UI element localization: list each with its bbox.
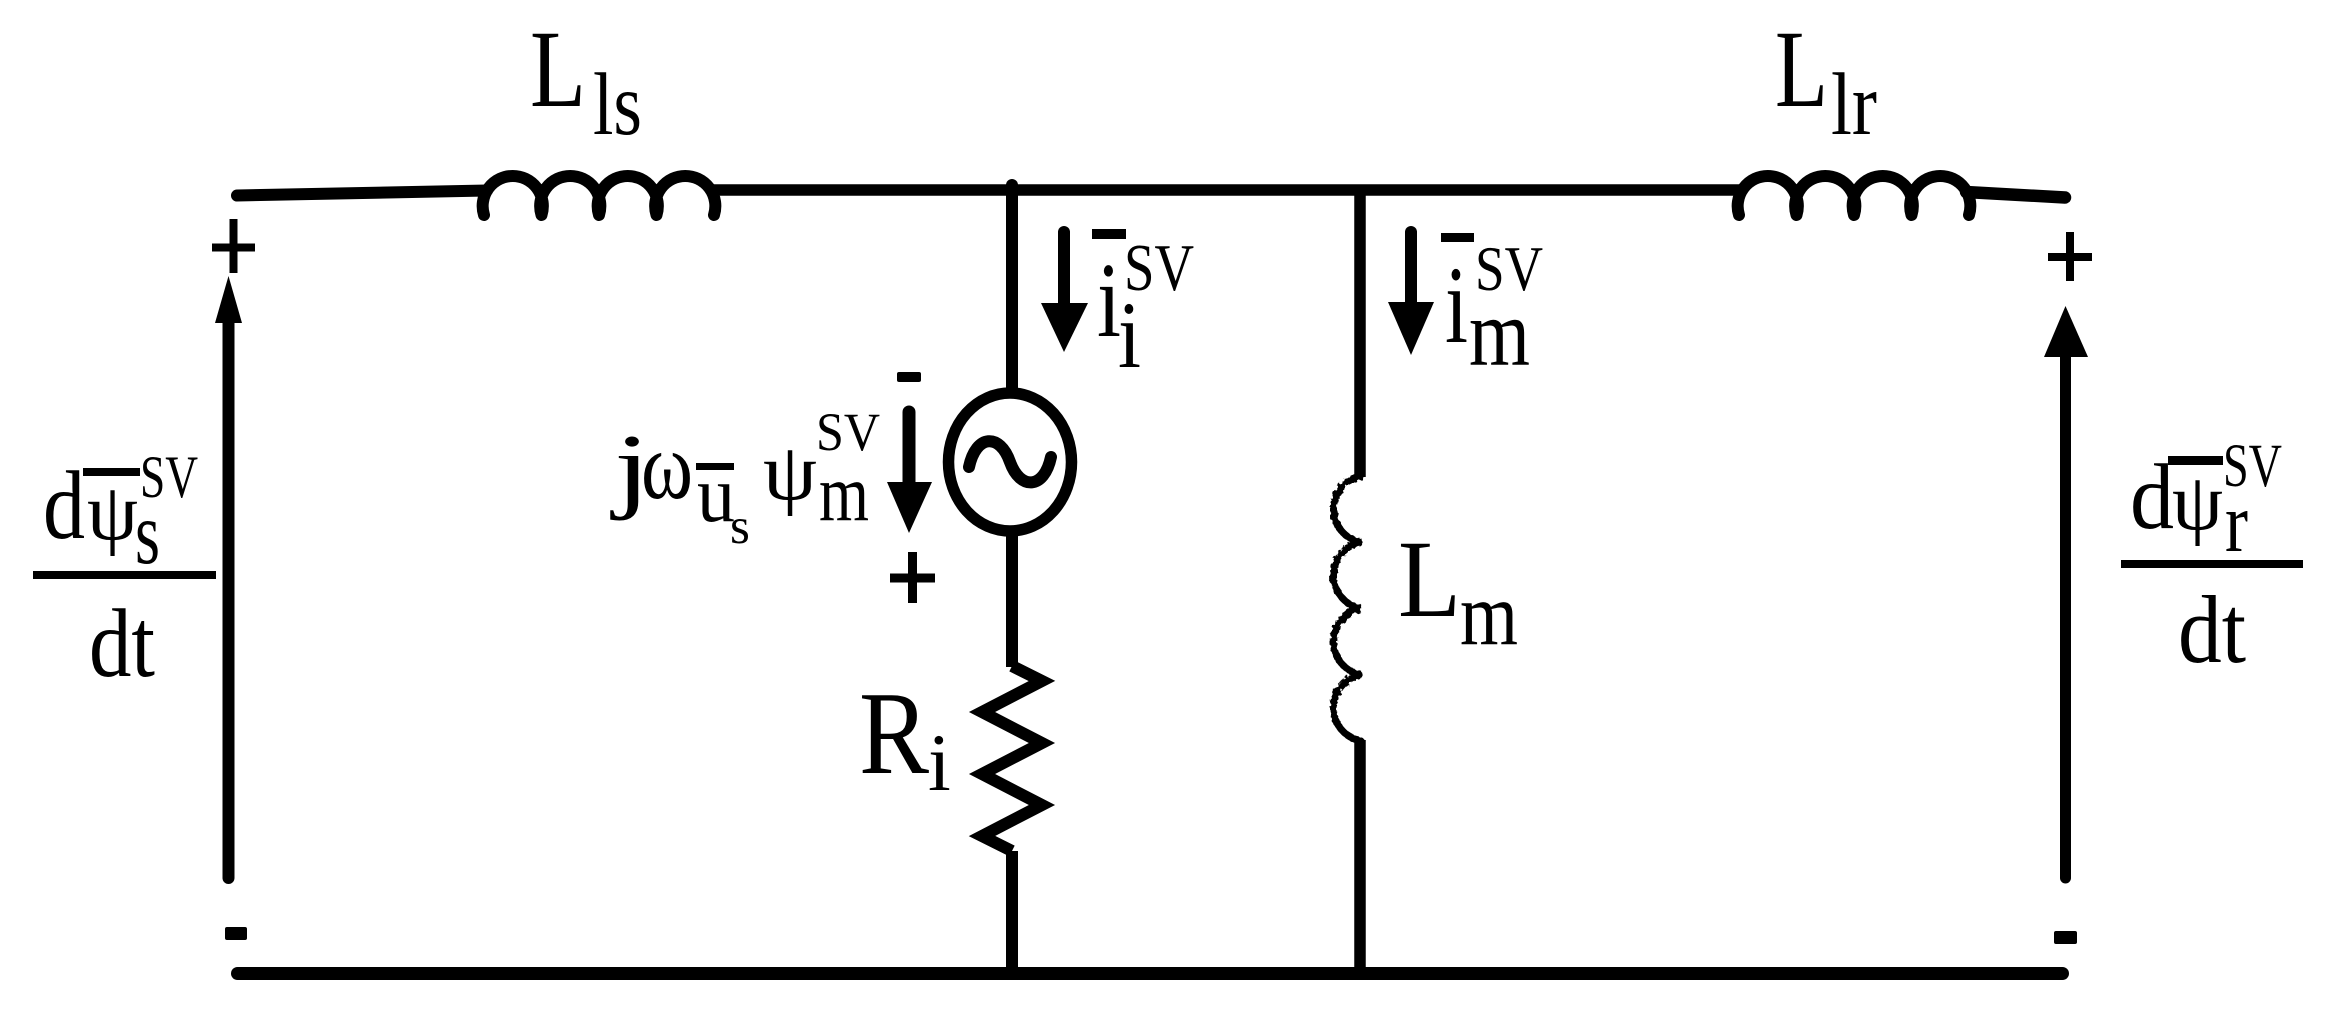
svg-text:i: i bbox=[928, 717, 951, 808]
svg-text:m: m bbox=[819, 448, 869, 538]
wire top-right segment bbox=[1966, 192, 2065, 198]
svg-text:i: i bbox=[1118, 282, 1141, 388]
svg-text:L: L bbox=[1398, 518, 1461, 640]
plus sign source bbox=[890, 552, 935, 603]
svg-text:ls: ls bbox=[593, 56, 642, 154]
source polarity arrow bbox=[887, 412, 932, 533]
inductor L_ls coil bbox=[483, 176, 716, 215]
svg-text:m: m bbox=[1469, 280, 1530, 386]
svg-text:SV: SV bbox=[140, 444, 198, 510]
inductor L_lr coil bbox=[1738, 176, 1971, 215]
svg-text:dt: dt bbox=[89, 590, 155, 697]
svg-text:lr: lr bbox=[1831, 56, 1877, 154]
label R_i bbox=[859, 667, 951, 808]
left voltage arrow (dψs/dt) bbox=[215, 276, 242, 878]
plus sign left bbox=[212, 219, 255, 273]
wire source to resistor bbox=[1006, 536, 1018, 667]
svg-text:ψ: ψ bbox=[2172, 459, 2223, 547]
current arrow i_m bbox=[1388, 232, 1434, 355]
label dψs/dt fraction bbox=[33, 444, 216, 697]
bottom wire bbox=[238, 967, 2063, 980]
svg-text:d: d bbox=[2130, 446, 2174, 549]
svg-text:L: L bbox=[530, 8, 586, 130]
label dψr/dt fraction bbox=[2121, 433, 2303, 683]
svg-text:R: R bbox=[859, 667, 930, 799]
svg-text:L: L bbox=[1775, 8, 1828, 130]
svg-text:dt: dt bbox=[2178, 576, 2246, 683]
svg-text:d: d bbox=[43, 452, 85, 559]
node B junction branch 2 bbox=[1354, 190, 1366, 477]
inductor L_m coil bbox=[1333, 476, 1361, 741]
wire top-left segment bbox=[237, 191, 487, 196]
current arrow i_i bbox=[1041, 232, 1088, 352]
svg-text:ψ: ψ bbox=[763, 429, 817, 517]
node A junction branch 1 bbox=[1006, 185, 1018, 389]
minus sign source bbox=[897, 372, 921, 382]
minus sign left bbox=[225, 927, 247, 940]
svg-text:s: s bbox=[730, 499, 750, 555]
svg-text:SV: SV bbox=[2223, 433, 2282, 500]
svg-text:ω: ω bbox=[641, 412, 693, 519]
label i_m^SV bbox=[1441, 233, 1543, 386]
inductor L_ls label bbox=[530, 8, 642, 154]
right voltage arrow (dψr/dt) bbox=[2044, 306, 2088, 878]
minus sign right bbox=[2054, 931, 2077, 944]
wire resistor to bottom bbox=[1006, 851, 1018, 974]
source label jw_us psi_m^SV bbox=[610, 402, 880, 555]
label i_i^SV bbox=[1092, 229, 1194, 388]
wire L_m to bottom bbox=[1354, 740, 1366, 974]
wire top-middle segment bbox=[710, 184, 1741, 196]
svg-text:i: i bbox=[1445, 244, 1468, 366]
ac source U1 bbox=[949, 393, 1072, 531]
plus sign right bbox=[2048, 232, 2092, 281]
resistor R_i bbox=[982, 666, 1042, 851]
svg-text:m: m bbox=[1460, 566, 1518, 664]
label L_m bbox=[1398, 518, 1518, 664]
svg-text:ψ: ψ bbox=[87, 469, 138, 557]
inductor L_lr label bbox=[1775, 8, 1877, 154]
